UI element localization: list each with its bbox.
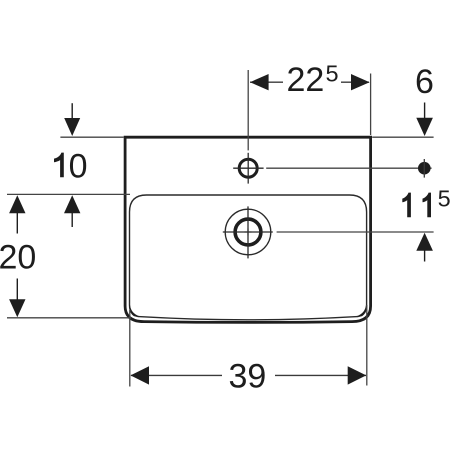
dimension 22.5 extension line right: [370, 74, 372, 136]
svg-text:5: 5: [438, 186, 450, 212]
dimension 39 left arrowhead: [131, 366, 150, 384]
dimension 10 upper arrow: [64, 103, 80, 136]
tap hole crosshair horizontal: [233, 167, 263, 169]
basin bottom extension line (left): [7, 317, 131, 319]
basin bottom-left corner shading: [129, 305, 139, 316]
tap hole centre line to datum dot: [266, 167, 431, 169]
drain centre mark: [245, 229, 252, 236]
dimension 11.5 label: [402, 193, 431, 218]
dimension 39 right arrowhead: [348, 366, 367, 384]
svg-text:6: 6: [415, 63, 434, 101]
top edge extension line (right): [372, 136, 433, 138]
svg-text:20: 20: [0, 238, 36, 276]
drain outer circle: [225, 209, 271, 255]
drain inner circle: [235, 219, 261, 245]
tap hole: [239, 159, 257, 177]
svg-text:0: 0: [69, 147, 88, 185]
dimension 22.5 right arrowhead: [351, 74, 370, 90]
dimension 22.5 label backing: [283, 58, 341, 96]
basin bottom-right corner shading: [357, 305, 367, 316]
dimension 10 extension line (top edge, left): [60, 136, 123, 138]
svg-text:22: 22: [287, 61, 325, 99]
dimension 39 line: [131, 374, 366, 376]
dimension 39 label backing: [222, 357, 275, 393]
drain centre line to right: [277, 231, 434, 233]
rim extension line (left): [7, 193, 130, 195]
dimension 6 arrow: [416, 103, 433, 137]
dimension 39 extension line left: [129, 310, 131, 387]
drain crosshair horizontal: [223, 231, 273, 233]
dimension 22.5 left arrowhead: [250, 74, 269, 90]
tap hole crosshair vertical: [247, 153, 249, 184]
dimension 22.5 extension line left: [247, 70, 249, 150]
svg-text:39: 39: [229, 357, 267, 395]
dimension 20 line lower segment: [16, 279, 18, 300]
datum dot: [418, 162, 431, 175]
dimension 10 lower arrow: [64, 195, 80, 227]
washbasin inner rim: [130, 195, 367, 320]
svg-text:5: 5: [326, 61, 339, 87]
dimension 11.5 arrow: [416, 233, 433, 262]
datum dot vertical tick: [423, 159, 425, 178]
dimension 20 lower arrow: [9, 299, 25, 317]
drain crosshair vertical: [247, 206, 249, 258]
dimension 20 upper arrow: [9, 195, 25, 233]
washbasin outer outline: [125, 137, 371, 322]
dimension 10 label: [54, 147, 88, 185]
dimension 22.5 line: [250, 81, 369, 83]
dimension 39 extension line right: [366, 305, 368, 386]
